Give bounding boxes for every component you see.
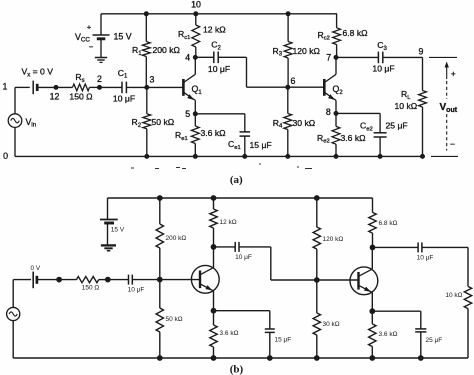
wire RL to bottom rail: [422, 107, 424, 156]
svg-text:15 V: 15 V: [111, 226, 125, 233]
wire battery to node 12: [37, 86, 56, 88]
node 7: [334, 55, 338, 59]
svg-text:200 kΩ: 200 kΩ: [153, 45, 181, 55]
resistor R4 30k: [284, 114, 292, 130]
junction b 3.6k bottom: [211, 356, 216, 361]
resistor Re1 3.6k: [191, 126, 199, 144]
vout arrow: [446, 65, 448, 80]
node 4: [193, 55, 197, 59]
wire Re1 to bottom rail: [194, 144, 196, 157]
junction b 12k top: [211, 196, 216, 201]
wire b collector junction to out cap: [373, 246, 419, 248]
wire b out cap to right corner: [422, 246, 468, 248]
wire b emitter junction to 3.6k: [213, 311, 215, 325]
wire b cap to bias junction: [132, 279, 160, 281]
wire b node to 150ohm: [59, 279, 76, 281]
svg-text:10: 10: [191, 0, 201, 10]
svg-text:10 μF: 10 μF: [417, 255, 434, 262]
bottom rail circuit a: [15, 155, 423, 157]
resistor 6.8k b: [369, 212, 376, 233]
vout bottom tick: [431, 155, 458, 157]
node 3: [145, 85, 149, 89]
wire b 10k to bottom rail: [467, 309, 469, 358]
wire Q2 emitter to node 8: [335, 100, 337, 113]
wire b input left segment: [13, 279, 31, 281]
svg-text:5: 5: [185, 109, 190, 119]
capacitor Ce2 25uF: [374, 132, 387, 134]
wire node 12 to Rs: [56, 86, 73, 88]
svg-text:1: 1: [3, 82, 8, 92]
svg-text:7: 7: [326, 52, 331, 62]
svg-text:25 μF: 25 μF: [386, 121, 408, 131]
svg-text:10 μF: 10 μF: [235, 254, 252, 261]
ground VCC: [95, 57, 107, 59]
wire Ce1 to bottom rail: [244, 136, 246, 156]
wire node 6 to Q2 base: [288, 86, 325, 88]
wire b 12k to collector junction: [213, 228, 215, 247]
wire b 15uF corner down: [269, 311, 271, 329]
node Re1 bottom rail: [193, 154, 197, 158]
bottom rail circuit b: [13, 357, 468, 359]
svg-text:200 kΩ: 200 kΩ: [166, 235, 187, 242]
svg-text:(b): (b): [230, 364, 244, 375]
battery VCC 15V: [93, 34, 110, 36]
wire b 150ohm to node: [99, 279, 108, 281]
source Vin AC: [8, 114, 22, 128]
svg-text:10 kΩ: 10 kΩ: [395, 101, 418, 111]
wire Re2 to bottom rail: [335, 144, 337, 156]
resistor 30k b: [313, 313, 320, 335]
svg-text:10 μF: 10 μF: [128, 286, 145, 293]
ground b: [101, 244, 116, 246]
wire b corner down to base rail: [270, 247, 272, 280]
vout top tick: [429, 56, 457, 58]
wire b 120k to junction: [316, 249, 318, 280]
node 12: [54, 85, 58, 89]
junction b 30k bottom: [314, 356, 319, 361]
wire b corner to bias junction 2: [271, 279, 317, 281]
resistor 120k b: [313, 227, 320, 249]
wire b top rail to 200k: [159, 198, 161, 224]
transistor T1 b: [191, 265, 219, 293]
wire b 30k to bottom rail: [316, 335, 318, 358]
node 8: [334, 111, 338, 115]
resistor 150 ohm b: [77, 277, 99, 283]
svg-text:+: +: [451, 70, 456, 79]
wire b left vertical down to source: [12, 280, 14, 308]
wire b battery to node dot: [37, 279, 59, 281]
wire R1 to node 3: [145, 57, 147, 88]
svg-text:150 Ω: 150 Ω: [82, 284, 100, 291]
wire R4 to bottom rail: [287, 130, 289, 157]
junction b emitter 2: [370, 309, 375, 314]
wire b T2 collector up: [371, 247, 373, 269]
wire node 5 to Re1: [194, 114, 196, 126]
svg-text:2: 2: [97, 74, 102, 84]
svg-text:8: 8: [326, 107, 331, 117]
wire node 2 to C1: [100, 86, 123, 88]
battery Vx b: [32, 272, 34, 289]
wire Ce1 corner down: [244, 114, 246, 132]
svg-text:3.6 kΩ: 3.6 kΩ: [341, 133, 367, 143]
resistor Rc1 12k: [192, 25, 200, 47]
scan artifact dashes: [131, 164, 312, 169]
wire Ce2 to bottom rail: [379, 137, 381, 156]
resistor 12k b: [210, 209, 217, 228]
svg-text:12 kΩ: 12 kΩ: [203, 25, 226, 35]
wire VCC battery to ground: [100, 39, 102, 58]
wire b collector junction to cap: [214, 246, 236, 248]
wire b 15uF to bottom rail: [269, 332, 271, 358]
svg-text:10 kΩ: 10 kΩ: [445, 292, 462, 299]
node 10 junction top rail: [194, 12, 198, 16]
capacitor 15uF b: [265, 328, 275, 330]
wire b 200k to junction: [159, 248, 161, 280]
svg-text:3.6 kΩ: 3.6 kΩ: [201, 128, 227, 138]
junction b 15uF bottom: [267, 356, 272, 361]
battery 15V b: [100, 219, 118, 221]
node 5: [193, 112, 197, 116]
wire C3 to node 9: [383, 56, 423, 58]
wire Q1 emitter to node 5: [194, 100, 196, 113]
capacitor C3 10uF: [377, 52, 379, 64]
node Re2 bottom rail: [334, 154, 338, 158]
wire Rs to node 2: [90, 86, 100, 88]
svg-text:6: 6: [291, 76, 296, 86]
svg-text:9: 9: [419, 47, 424, 57]
wire b T1 emitter down: [213, 291, 215, 311]
wire Q1 collector to node 4: [194, 57, 196, 74]
svg-text:10 μF: 10 μF: [208, 64, 230, 74]
resistor 3.6k stage1 b: [210, 325, 217, 347]
svg-text:30 kΩ: 30 kΩ: [323, 321, 340, 328]
wire R2 to bottom rail: [146, 129, 148, 157]
capacitor 10uF input b: [128, 275, 130, 285]
node R3 top rail: [286, 12, 290, 16]
wire b emitter junction 2 to 3.6k: [371, 311, 373, 324]
junction b 120k top: [314, 196, 319, 201]
wire left vertical node1 down to Vin: [14, 87, 16, 113]
wire Ce2 corner down: [379, 113, 381, 132]
wire R3 to node 6: [287, 58, 289, 87]
vout dashed line: [446, 81, 448, 99]
wire node 3 to Q1 base: [147, 86, 184, 88]
wire node 5 to Ce1 corner: [195, 113, 245, 115]
svg-text:120 kΩ: 120 kΩ: [323, 236, 344, 243]
source AC b: [7, 307, 20, 320]
wire b T2 emitter down: [371, 293, 373, 312]
svg-text:50 kΩ: 50 kΩ: [152, 117, 175, 127]
wire C1 to node 3: [126, 86, 146, 88]
wire Rc2 to node 7: [336, 45, 338, 58]
wire node 7 to C3: [336, 56, 378, 58]
node RL bottom rail: [421, 154, 425, 158]
capacitor C2 10uF: [213, 52, 215, 64]
resistor Re2 3.6k: [332, 126, 340, 144]
wire Q2 collector to node 7: [335, 57, 337, 74]
junction b collector 1: [211, 245, 216, 250]
capacitor 25uF b: [415, 328, 426, 330]
resistor 3.6k stage2 b: [369, 324, 376, 347]
resistor Rs 150 ohm: [73, 84, 90, 91]
junction b input 2: [105, 277, 110, 282]
junction b input 1: [57, 277, 62, 282]
svg-text:120 kΩ: 120 kΩ: [293, 46, 321, 56]
svg-text:12 kΩ: 12 kΩ: [220, 219, 237, 226]
svg-text:(a): (a): [230, 174, 243, 186]
wire b junction to 30k: [316, 280, 318, 313]
resistor 10k load b: [464, 286, 471, 308]
wire b 3.6k to bottom rail: [213, 347, 215, 358]
wire node 3 to R2: [146, 87, 148, 113]
wire b top rail to 120k: [316, 198, 318, 227]
wire top rail to R3: [287, 14, 289, 42]
transistor Q1: [182, 79, 185, 96]
node Ce1 bottom rail: [243, 154, 247, 158]
svg-text:+: +: [87, 22, 91, 31]
wire b 3.6k stage2 to bottom rail: [371, 347, 373, 359]
wire b cap right segment: [239, 246, 271, 248]
svg-text:3: 3: [150, 75, 155, 85]
wire node 4 to C2: [195, 56, 214, 58]
junction b collector 2: [370, 245, 375, 250]
capacitor 10uF coupling b: [234, 242, 236, 252]
svg-text:3.6 kΩ: 3.6 kΩ: [220, 330, 239, 337]
resistor RL 10k: [419, 91, 427, 108]
wire b source down to bottom rail: [12, 321, 14, 358]
junction b 200k top: [157, 196, 162, 201]
node 6: [286, 85, 290, 89]
wire b T1 collector up: [213, 247, 215, 268]
wire Rc1 to node 4: [195, 47, 197, 57]
svg-text:15 V: 15 V: [114, 32, 132, 42]
wire b emitter 2 to 25uF corner: [372, 310, 421, 312]
wire corner to node 6: [247, 86, 288, 88]
wire b top rail corner to 6.8k: [372, 198, 374, 212]
wire b bias junction 2 to T2 base: [317, 279, 359, 281]
node R4 bottom rail: [286, 154, 290, 158]
wire node 8 to Re2: [335, 113, 337, 126]
node Ce2 bottom rail: [378, 154, 382, 158]
resistor Rc2 6.8k: [333, 28, 341, 45]
wire b 25uF to bottom rail: [420, 332, 422, 358]
junction b emitter 1: [211, 308, 216, 313]
node R1 top rail: [144, 12, 148, 16]
transistor T2 b: [350, 267, 378, 295]
svg-text:6.8 kΩ: 6.8 kΩ: [343, 28, 369, 38]
battery Vx (Vx = 0 V): [32, 81, 34, 95]
svg-text:10 μF: 10 μF: [113, 93, 135, 103]
svg-text:6.8 kΩ: 6.8 kΩ: [379, 220, 398, 227]
wire node 6 to R4: [287, 87, 289, 113]
node R2 bottom rail: [145, 154, 149, 158]
wire b top rail to battery: [107, 198, 109, 220]
wire b 6.8k to collector junction: [372, 233, 374, 247]
resistor R2 50k: [143, 114, 151, 129]
wire C2 to corner: [218, 56, 246, 58]
resistor R1 200k: [142, 42, 150, 57]
wire corner down: [246, 57, 248, 87]
transistor Q2: [323, 79, 326, 96]
wire top rail to Rc1: [195, 14, 197, 25]
junction b bias 2: [314, 278, 319, 283]
svg-text:4: 4: [185, 53, 190, 63]
capacitor C1 10uF: [121, 82, 123, 94]
svg-text:30 kΩ: 30 kΩ: [293, 118, 316, 128]
svg-text:−: −: [450, 139, 455, 149]
wire b junction to 50k: [159, 280, 161, 308]
node 2: [98, 85, 102, 89]
wire input top segment node1 to battery: [15, 86, 30, 88]
wire top rail down to VCC battery: [100, 14, 102, 35]
resistor 200k b: [156, 224, 163, 248]
svg-text:10 μF: 10 μF: [372, 64, 394, 74]
top rail circuit b: [108, 197, 373, 199]
wire b 50k to bottom rail: [159, 332, 161, 358]
top rail circuit a: [101, 13, 337, 15]
wire top rail to R1: [145, 14, 147, 42]
wire b battery to ground: [107, 223, 109, 245]
svg-text:3.6 kΩ: 3.6 kΩ: [379, 331, 398, 338]
wire Vin down to bottom rail: [14, 127, 16, 156]
wire b node to cap: [108, 279, 129, 281]
svg-text:12: 12: [50, 91, 60, 101]
wire b right corner down to 10k: [467, 247, 469, 286]
resistor 50k b: [156, 308, 163, 332]
svg-text:15 μF: 15 μF: [275, 336, 292, 343]
svg-text:25 μF: 25 μF: [426, 337, 443, 344]
svg-text:0 V: 0 V: [31, 265, 41, 272]
wire b bias junction to T1 base: [160, 279, 200, 281]
wire node 8 to Ce2 corner: [336, 112, 380, 114]
capacitor 10uF output b: [417, 242, 419, 252]
svg-text:50 kΩ: 50 kΩ: [166, 316, 183, 323]
junction b bias 1: [157, 277, 162, 282]
wire node 9 down to RL: [422, 57, 424, 90]
svg-text:−: −: [89, 43, 94, 52]
resistor R3 120k: [284, 42, 292, 59]
svg-text:0: 0: [3, 151, 8, 161]
capacitor Ce1 15uF: [240, 131, 251, 133]
wire b 25uF corner down: [420, 311, 422, 329]
junction b 3.6k stage2 bottom: [370, 356, 375, 361]
wire b top rail to 12k: [213, 198, 215, 209]
wire b emitter to 15uF corner: [214, 310, 270, 312]
junction b 50k bottom: [157, 356, 162, 361]
junction b 25uF bottom: [418, 356, 423, 361]
wire top rail corner to Rc2: [336, 14, 338, 28]
svg-text:150 Ω: 150 Ω: [69, 91, 93, 101]
svg-text:15 μF: 15 μF: [250, 140, 272, 150]
